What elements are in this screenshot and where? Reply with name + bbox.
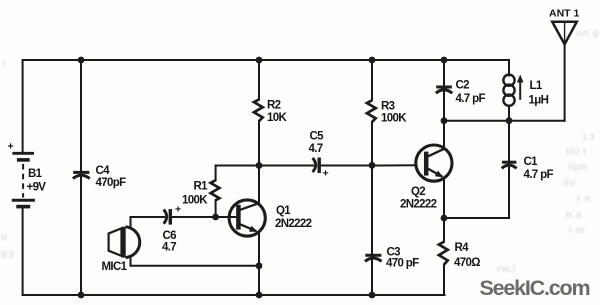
svg-text:ilv: ilv xyxy=(563,178,576,189)
capacitor C1 xyxy=(502,162,517,168)
transistor Q1 xyxy=(229,200,265,236)
wire R1 bottom lead xyxy=(215,200,217,217)
node tank rail L1/C1 xyxy=(506,117,513,124)
resistor R2 xyxy=(254,99,263,121)
wire mic top lead xyxy=(131,217,165,227)
wire antenna column xyxy=(564,44,566,121)
svg-text:t n: t n xyxy=(577,194,591,205)
svg-text:4.7 pF: 4.7 pF xyxy=(456,93,486,105)
node top rail R3 xyxy=(369,57,376,64)
capacitor C4 xyxy=(73,172,90,178)
wire R1 top lead xyxy=(215,166,217,181)
wire bottom rail xyxy=(23,294,445,296)
wire node row y=165.5 left part xyxy=(216,165,313,167)
svg-text:C1: C1 xyxy=(524,156,539,168)
node bottom rail C4 xyxy=(78,292,85,299)
svg-text:Q2: Q2 xyxy=(411,186,425,198)
svg-text:lqm: lqm xyxy=(568,162,587,173)
svg-text:R4: R4 xyxy=(455,242,470,254)
wire emitter feedback row xyxy=(444,217,509,219)
svg-text:4.7: 4.7 xyxy=(309,143,323,155)
wire R2 bottom lead / Q1 collector xyxy=(258,121,260,205)
wire mic bottom lead xyxy=(131,258,260,266)
wire Q2 collector xyxy=(443,121,445,149)
svg-text:un g: un g xyxy=(576,28,599,39)
node tank rail left xyxy=(441,117,448,124)
svg-text:ANT 1: ANT 1 xyxy=(549,8,579,20)
node R1 / C6 / Q1 base xyxy=(212,214,219,221)
svg-text:+: + xyxy=(175,204,181,216)
resistor R1 xyxy=(211,180,220,200)
svg-text:u: u xyxy=(1,232,8,243)
node dots xyxy=(78,57,513,299)
wire C6 to Q1 base xyxy=(171,216,238,218)
svg-text:rw.i: rw.i xyxy=(497,264,516,275)
svg-text:+: + xyxy=(323,168,329,180)
svg-text:C6: C6 xyxy=(163,230,177,242)
svg-text:C2: C2 xyxy=(456,80,470,92)
svg-text:t: t xyxy=(2,58,6,69)
wire C4 column xyxy=(80,60,82,295)
wire R2 top lead xyxy=(258,60,260,99)
inductor L1 xyxy=(503,75,514,106)
svg-text:R2: R2 xyxy=(267,100,281,112)
svg-text:C4: C4 xyxy=(96,165,111,177)
svg-text:L1: L1 xyxy=(530,80,543,92)
battery B1 xyxy=(12,153,35,206)
svg-text:+: + xyxy=(8,141,14,153)
resistor R4 xyxy=(439,242,448,265)
wire L1 column bottom xyxy=(508,106,510,121)
node top rail C4 xyxy=(78,57,85,64)
svg-text:i m: i m xyxy=(569,225,585,236)
wire Q2 emitter / R4 top lead xyxy=(443,178,445,242)
wire left column top xyxy=(22,60,24,153)
svg-text:470pF: 470pF xyxy=(96,177,127,189)
svg-text:470Ω: 470Ω xyxy=(454,257,480,269)
wire Q1 emitter column xyxy=(258,232,260,296)
svg-text:L1: L1 xyxy=(583,132,596,143)
transistor Q2 xyxy=(416,145,452,181)
node top rail R2 xyxy=(256,57,263,64)
wire R4 bottom lead xyxy=(443,265,445,295)
node bottom rail Q1 emitter xyxy=(256,292,263,299)
svg-text:Q1: Q1 xyxy=(276,205,291,217)
resistor R3 xyxy=(367,100,376,122)
node R2 bottom / Q1 collector xyxy=(256,162,263,169)
node Q2 emitter / R4 / C1 xyxy=(441,215,448,222)
svg-text:100K: 100K xyxy=(381,113,407,125)
wire R3 bottom lead / C3 column xyxy=(371,122,373,295)
svg-text:h a: h a xyxy=(566,210,582,221)
svg-text:1μH: 1μH xyxy=(529,95,549,107)
svg-text:100K: 100K xyxy=(182,195,208,207)
svg-text:R3: R3 xyxy=(381,101,395,113)
wire node row y=165.5 right part to Q2 base xyxy=(321,164,416,166)
svg-text:4.7: 4.7 xyxy=(162,242,176,254)
svg-text:2N2222: 2N2222 xyxy=(275,218,312,230)
antenna ANT1 xyxy=(552,22,577,45)
svg-text:C5: C5 xyxy=(310,131,325,143)
svg-text:+9V: +9V xyxy=(27,182,47,194)
microphone MIC1 xyxy=(109,227,140,258)
capacitor C6 xyxy=(164,209,171,225)
wire R3 top lead xyxy=(371,60,373,100)
wire left column bottom xyxy=(22,208,24,295)
svg-text:B1: B1 xyxy=(28,168,43,180)
svg-text:thl t: thl t xyxy=(566,147,587,158)
svg-text:E3: E3 xyxy=(1,250,14,261)
wire collector tank rail xyxy=(444,120,565,122)
node mic return / Q1 emitter xyxy=(256,262,263,269)
capacitor C5 xyxy=(313,158,320,174)
L1 arrow xyxy=(517,75,524,100)
node bottom rail C3 xyxy=(369,292,376,299)
svg-text:R1: R1 xyxy=(194,181,209,193)
svg-text:10K: 10K xyxy=(267,112,287,124)
svg-text:SeekIC.com: SeekIC.com xyxy=(480,276,590,300)
wire L1 column top xyxy=(508,60,510,76)
wire top rail xyxy=(23,59,509,61)
wire C2 column xyxy=(443,60,445,121)
node top rail C2 xyxy=(441,57,448,64)
svg-text:MIC1: MIC1 xyxy=(102,261,128,273)
svg-text:4.7 pF: 4.7 pF xyxy=(524,169,554,181)
capacitor C3 xyxy=(365,255,382,261)
capacitor C2 xyxy=(436,87,452,93)
wire C1 column xyxy=(508,121,510,218)
svg-text:470 pF: 470 pF xyxy=(386,258,419,270)
svg-text:2N2222: 2N2222 xyxy=(400,199,437,211)
node R3 bottom / Q2 base xyxy=(369,162,376,169)
